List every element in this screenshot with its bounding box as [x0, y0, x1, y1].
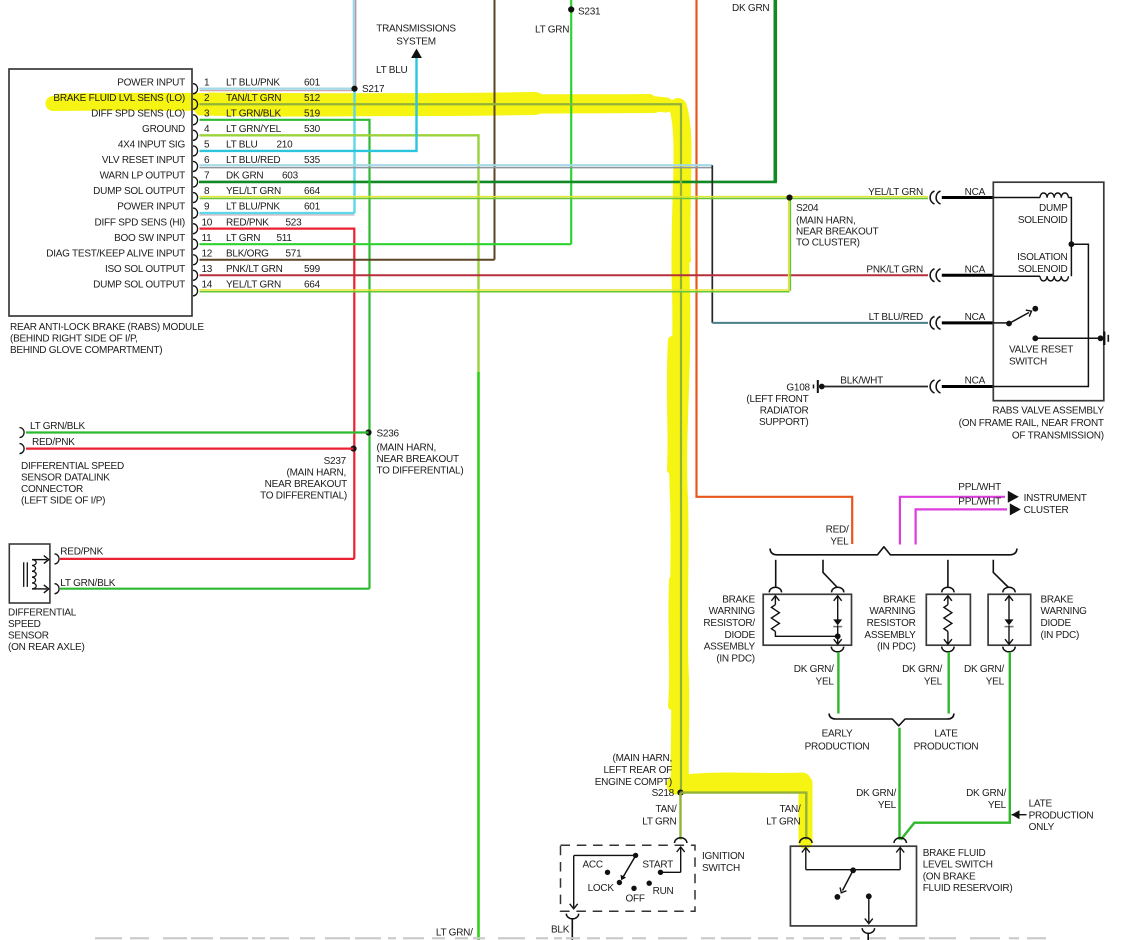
svg-text:4: 4 [204, 124, 210, 135]
svg-text:DK GRN/: DK GRN/ [902, 664, 942, 675]
svg-text:IGNITION: IGNITION [702, 851, 744, 862]
svg-text:(MAIN HARN,: (MAIN HARN, [613, 753, 672, 764]
svg-text:BRAKE: BRAKE [1041, 594, 1074, 605]
svg-text:YEL: YEL [878, 800, 897, 811]
svg-text:YEL: YEL [816, 677, 835, 688]
svg-text:BLK/ORG: BLK/ORG [226, 248, 269, 259]
svg-text:PPL/WHT: PPL/WHT [958, 482, 1001, 493]
svg-text:WARNING: WARNING [1041, 606, 1088, 617]
svg-text:OF TRANSMISSION): OF TRANSMISSION) [1012, 431, 1104, 442]
svg-text:(IN PDC): (IN PDC) [716, 653, 755, 664]
svg-text:3: 3 [204, 108, 210, 119]
svg-text:RED/PNK: RED/PNK [226, 217, 269, 228]
svg-text:13: 13 [202, 264, 213, 275]
svg-text:LATE: LATE [934, 729, 958, 740]
svg-text:YEL: YEL [988, 800, 1007, 811]
svg-text:RESISTOR: RESISTOR [867, 618, 916, 629]
svg-text:VLV RESET INPUT: VLV RESET INPUT [102, 155, 185, 166]
svg-text:DIODE: DIODE [1041, 618, 1072, 629]
svg-text:LT BLU/PNK: LT BLU/PNK [226, 77, 280, 88]
svg-text:DK GRN/: DK GRN/ [856, 788, 896, 799]
svg-text:YEL/LT GRN: YEL/LT GRN [868, 187, 923, 198]
svg-text:664: 664 [304, 186, 321, 197]
svg-text:PRODUCTION: PRODUCTION [914, 741, 979, 752]
svg-text:TRANSMISSIONS: TRANSMISSIONS [376, 24, 456, 35]
svg-text:OFF: OFF [626, 894, 645, 905]
svg-text:NEAR BREAKOUT: NEAR BREAKOUT [377, 454, 459, 465]
svg-text:SWITCH: SWITCH [702, 863, 740, 874]
svg-text:ISO SOL OUTPUT: ISO SOL OUTPUT [105, 264, 185, 275]
svg-text:PPL/WHT: PPL/WHT [958, 496, 1001, 507]
svg-text:SWITCH: SWITCH [1009, 356, 1047, 367]
svg-text:210: 210 [277, 140, 294, 151]
svg-text:10: 10 [202, 217, 213, 228]
svg-text:PRODUCTION: PRODUCTION [805, 741, 870, 752]
svg-text:REAR ANTI-LOCK BRAKE (RABS) MO: REAR ANTI-LOCK BRAKE (RABS) MODULE [10, 322, 204, 333]
svg-text:DK GRN/: DK GRN/ [964, 664, 1004, 675]
svg-text:519: 519 [304, 108, 321, 119]
svg-text:S217: S217 [362, 84, 385, 95]
svg-text:RABS VALVE ASSEMBLY: RABS VALVE ASSEMBLY [992, 405, 1104, 416]
svg-text:RED/PNK: RED/PNK [60, 546, 103, 557]
svg-text:BOO SW INPUT: BOO SW INPUT [114, 233, 185, 244]
svg-text:TO CLUSTER): TO CLUSTER) [796, 238, 860, 249]
svg-text:664: 664 [304, 279, 321, 290]
svg-text:S218: S218 [652, 788, 675, 799]
svg-text:TO DIFFERENTIAL): TO DIFFERENTIAL) [260, 491, 347, 502]
svg-text:599: 599 [304, 264, 321, 275]
svg-text:SUPPORT): SUPPORT) [759, 417, 809, 428]
svg-text:(ON BRAKE: (ON BRAKE [923, 871, 976, 882]
svg-text:POWER INPUT: POWER INPUT [117, 77, 185, 88]
svg-text:12: 12 [202, 248, 213, 259]
svg-text:VALVE RESET: VALVE RESET [1009, 344, 1073, 355]
svg-text:DIFF SPD SENS (HI): DIFF SPD SENS (HI) [94, 217, 185, 228]
svg-text:LT BLU/RED: LT BLU/RED [869, 312, 923, 323]
svg-text:PNK/LT GRN: PNK/LT GRN [866, 265, 923, 276]
svg-text:TAN/: TAN/ [779, 804, 801, 815]
svg-text:PNK/LT GRN: PNK/LT GRN [226, 264, 283, 275]
svg-text:LEFT REAR OF: LEFT REAR OF [604, 765, 673, 776]
svg-text:2: 2 [204, 93, 210, 104]
svg-text:S236: S236 [377, 429, 400, 440]
svg-text:4X4 INPUT SIG: 4X4 INPUT SIG [118, 140, 186, 151]
svg-text:DIFFERENTIAL SPEED: DIFFERENTIAL SPEED [21, 461, 124, 472]
svg-text:BEHIND GLOVE COMPARTMENT): BEHIND GLOVE COMPARTMENT) [10, 345, 162, 356]
svg-text:LT GRN: LT GRN [226, 233, 260, 244]
svg-text:LT GRN/BLK: LT GRN/BLK [30, 421, 86, 432]
svg-text:14: 14 [202, 279, 213, 290]
svg-text:511: 511 [277, 233, 293, 244]
svg-text:(MAIN HARN,: (MAIN HARN, [287, 468, 346, 479]
svg-text:DIFFERENTIAL: DIFFERENTIAL [8, 608, 77, 619]
svg-text:512: 512 [304, 93, 321, 104]
svg-text:SPEED: SPEED [8, 619, 41, 630]
svg-text:LT BLU: LT BLU [376, 65, 408, 76]
svg-text:(MAIN HARN,: (MAIN HARN, [796, 216, 855, 227]
svg-text:ASSEMBLY: ASSEMBLY [704, 642, 756, 653]
svg-text:LT GRN: LT GRN [642, 817, 676, 828]
svg-text:5: 5 [204, 140, 210, 151]
svg-text:G108: G108 [786, 383, 810, 394]
svg-text:LT GRN: LT GRN [766, 817, 800, 828]
svg-text:ISOLATION: ISOLATION [1017, 252, 1067, 263]
svg-text:DUMP SOL OUTPUT: DUMP SOL OUTPUT [93, 186, 185, 197]
svg-text:EARLY: EARLY [822, 729, 853, 740]
svg-text:RED/: RED/ [826, 525, 849, 536]
svg-text:ENGINE COMPT): ENGINE COMPT) [595, 777, 672, 788]
svg-text:DK GRN/: DK GRN/ [966, 788, 1006, 799]
svg-text:SYSTEM: SYSTEM [396, 37, 436, 48]
svg-text:LATE: LATE [1029, 799, 1053, 810]
svg-text:BLK: BLK [551, 925, 570, 936]
svg-text:TAN/LT GRN: TAN/LT GRN [226, 93, 281, 104]
svg-text:PRODUCTION: PRODUCTION [1029, 810, 1094, 821]
svg-text:RED/PNK: RED/PNK [32, 437, 75, 448]
svg-text:571: 571 [286, 248, 303, 259]
svg-text:START: START [642, 860, 673, 871]
svg-text:11: 11 [202, 233, 213, 244]
svg-text:(MAIN HARN,: (MAIN HARN, [377, 443, 436, 454]
svg-text:NEAR BREAKOUT: NEAR BREAKOUT [796, 227, 878, 238]
svg-text:YEL: YEL [986, 677, 1005, 688]
svg-text:RESISTOR/: RESISTOR/ [703, 618, 755, 629]
svg-text:BLK/WHT: BLK/WHT [840, 376, 883, 387]
svg-text:(IN PDC): (IN PDC) [1041, 630, 1080, 641]
svg-text:8: 8 [204, 186, 210, 197]
svg-text:DK GRN: DK GRN [732, 3, 769, 14]
svg-text:SENSOR DATALINK: SENSOR DATALINK [21, 473, 110, 484]
svg-text:TAN/: TAN/ [655, 804, 677, 815]
svg-text:SOLENOID: SOLENOID [1018, 264, 1068, 275]
svg-text:BRAKE FLUID LVL SENS (LO): BRAKE FLUID LVL SENS (LO) [53, 93, 185, 104]
svg-text:1: 1 [204, 77, 210, 88]
svg-text:FLUID RESERVOIR): FLUID RESERVOIR) [923, 883, 1013, 894]
svg-text:DUMP: DUMP [1039, 203, 1068, 214]
svg-text:ACC: ACC [583, 860, 603, 871]
svg-text:BRAKE: BRAKE [722, 594, 755, 605]
svg-text:TO DIFFERENTIAL): TO DIFFERENTIAL) [377, 466, 464, 477]
svg-text:(BEHIND RIGHT SIDE OF I/P,: (BEHIND RIGHT SIDE OF I/P, [10, 334, 138, 345]
svg-text:ONLY: ONLY [1029, 822, 1055, 833]
svg-text:CLUSTER: CLUSTER [1024, 505, 1069, 516]
svg-text:YEL: YEL [830, 537, 849, 548]
svg-text:YEL/LT GRN: YEL/LT GRN [226, 186, 281, 197]
svg-text:DIAG TEST/KEEP ALIVE INPUT: DIAG TEST/KEEP ALIVE INPUT [46, 248, 185, 259]
svg-text:ASSEMBLY: ASSEMBLY [864, 630, 916, 641]
svg-text:WARNING: WARNING [709, 606, 756, 617]
svg-text:7: 7 [204, 171, 210, 182]
svg-text:9: 9 [204, 202, 210, 213]
svg-text:LT BLU: LT BLU [226, 140, 258, 151]
svg-text:DK GRN/: DK GRN/ [794, 664, 834, 675]
svg-text:S237: S237 [324, 456, 347, 467]
svg-text:(LEFT SIDE OF I/P): (LEFT SIDE OF I/P) [21, 496, 105, 507]
svg-text:SOLENOID: SOLENOID [1018, 215, 1068, 226]
svg-text:LT GRN/YEL: LT GRN/YEL [226, 124, 282, 135]
svg-text:YEL/LT GRN: YEL/LT GRN [226, 279, 281, 290]
svg-text:RUN: RUN [653, 886, 674, 897]
svg-text:DIODE: DIODE [724, 630, 755, 641]
svg-text:CONNECTOR: CONNECTOR [21, 484, 83, 495]
svg-text:POWER INPUT: POWER INPUT [117, 202, 185, 213]
svg-text:GROUND: GROUND [142, 124, 185, 135]
svg-text:601: 601 [304, 77, 321, 88]
svg-text:(ON FRAME RAIL, NEAR FRONT: (ON FRAME RAIL, NEAR FRONT [959, 418, 1104, 429]
svg-text:(LEFT FRONT: (LEFT FRONT [746, 394, 808, 405]
svg-text:DIFF SPD SENS (LO): DIFF SPD SENS (LO) [91, 108, 185, 119]
svg-text:(ON REAR AXLE): (ON REAR AXLE) [8, 642, 85, 653]
svg-text:DUMP SOL OUTPUT: DUMP SOL OUTPUT [93, 279, 185, 290]
svg-text:DK GRN: DK GRN [226, 171, 263, 182]
svg-text:SENSOR: SENSOR [8, 631, 49, 642]
svg-text:YEL: YEL [924, 677, 943, 688]
svg-text:WARNING: WARNING [869, 606, 916, 617]
svg-text:LOCK: LOCK [588, 883, 615, 894]
svg-text:LT GRN/: LT GRN/ [436, 928, 473, 939]
svg-text:BRAKE: BRAKE [883, 594, 916, 605]
svg-text:LEVEL SWITCH: LEVEL SWITCH [923, 860, 993, 871]
svg-text:LT GRN/BLK: LT GRN/BLK [226, 108, 282, 119]
svg-text:(IN PDC): (IN PDC) [877, 642, 916, 653]
svg-text:530: 530 [304, 124, 321, 135]
svg-text:S231: S231 [578, 7, 601, 18]
svg-text:523: 523 [286, 217, 303, 228]
svg-text:LT BLU/PNK: LT BLU/PNK [226, 202, 280, 213]
svg-text:S204: S204 [796, 203, 819, 214]
svg-text:RADIATOR: RADIATOR [760, 406, 809, 417]
svg-text:LT GRN/BLK: LT GRN/BLK [60, 578, 116, 589]
svg-text:LT GRN: LT GRN [535, 25, 569, 36]
svg-text:603: 603 [282, 171, 299, 182]
svg-text:601: 601 [304, 202, 321, 213]
svg-text:NEAR BREAKOUT: NEAR BREAKOUT [265, 479, 347, 490]
svg-text:BRAKE FLUID: BRAKE FLUID [923, 848, 986, 859]
svg-text:WARN LP OUTPUT: WARN LP OUTPUT [100, 171, 186, 182]
svg-text:INSTRUMENT: INSTRUMENT [1024, 493, 1087, 504]
